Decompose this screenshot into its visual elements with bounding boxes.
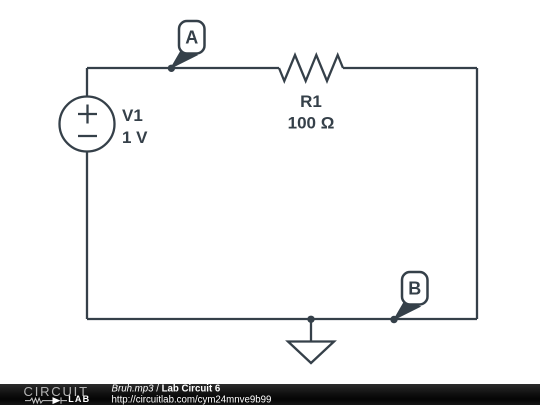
- svg-text:http://circuitlab.com/cym24mnv: http://circuitlab.com/cym24mnve9b99: [112, 394, 272, 405]
- svg-text:1 V: 1 V: [122, 128, 148, 147]
- svg-text:B: B: [408, 279, 421, 299]
- svg-text:A: A: [185, 28, 198, 48]
- svg-text:V1: V1: [122, 106, 143, 125]
- svg-text:100 Ω: 100 Ω: [288, 114, 335, 133]
- svg-text:R1: R1: [300, 92, 322, 111]
- svg-text:LAB: LAB: [68, 394, 90, 404]
- svg-text:Bruh.mp3 / Lab Circuit 6: Bruh.mp3 / Lab Circuit 6: [112, 384, 221, 394]
